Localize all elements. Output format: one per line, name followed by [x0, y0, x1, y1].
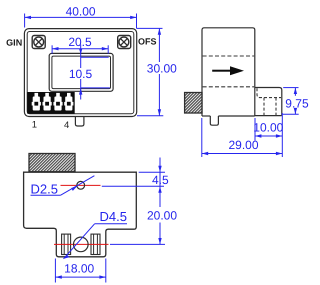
svg-text:20.00: 20.00	[147, 208, 177, 222]
svg-text:10.5: 10.5	[69, 67, 93, 81]
svg-text:10.00: 10.00	[253, 120, 283, 134]
svg-text:29.00: 29.00	[228, 138, 258, 152]
svg-text:40.00: 40.00	[66, 4, 96, 18]
svg-text:OFS: OFS	[138, 37, 157, 47]
svg-text:9.75: 9.75	[285, 96, 309, 110]
svg-text:4: 4	[64, 120, 69, 131]
svg-text:18.00: 18.00	[64, 262, 94, 276]
svg-text:D4.5: D4.5	[100, 209, 127, 224]
svg-text:20.5: 20.5	[68, 35, 92, 49]
svg-text:GIN: GIN	[6, 38, 22, 48]
svg-text:4.5: 4.5	[152, 173, 169, 187]
svg-text:D2.5: D2.5	[31, 182, 58, 197]
svg-text:30.00: 30.00	[147, 62, 177, 76]
svg-text:1: 1	[32, 119, 37, 130]
